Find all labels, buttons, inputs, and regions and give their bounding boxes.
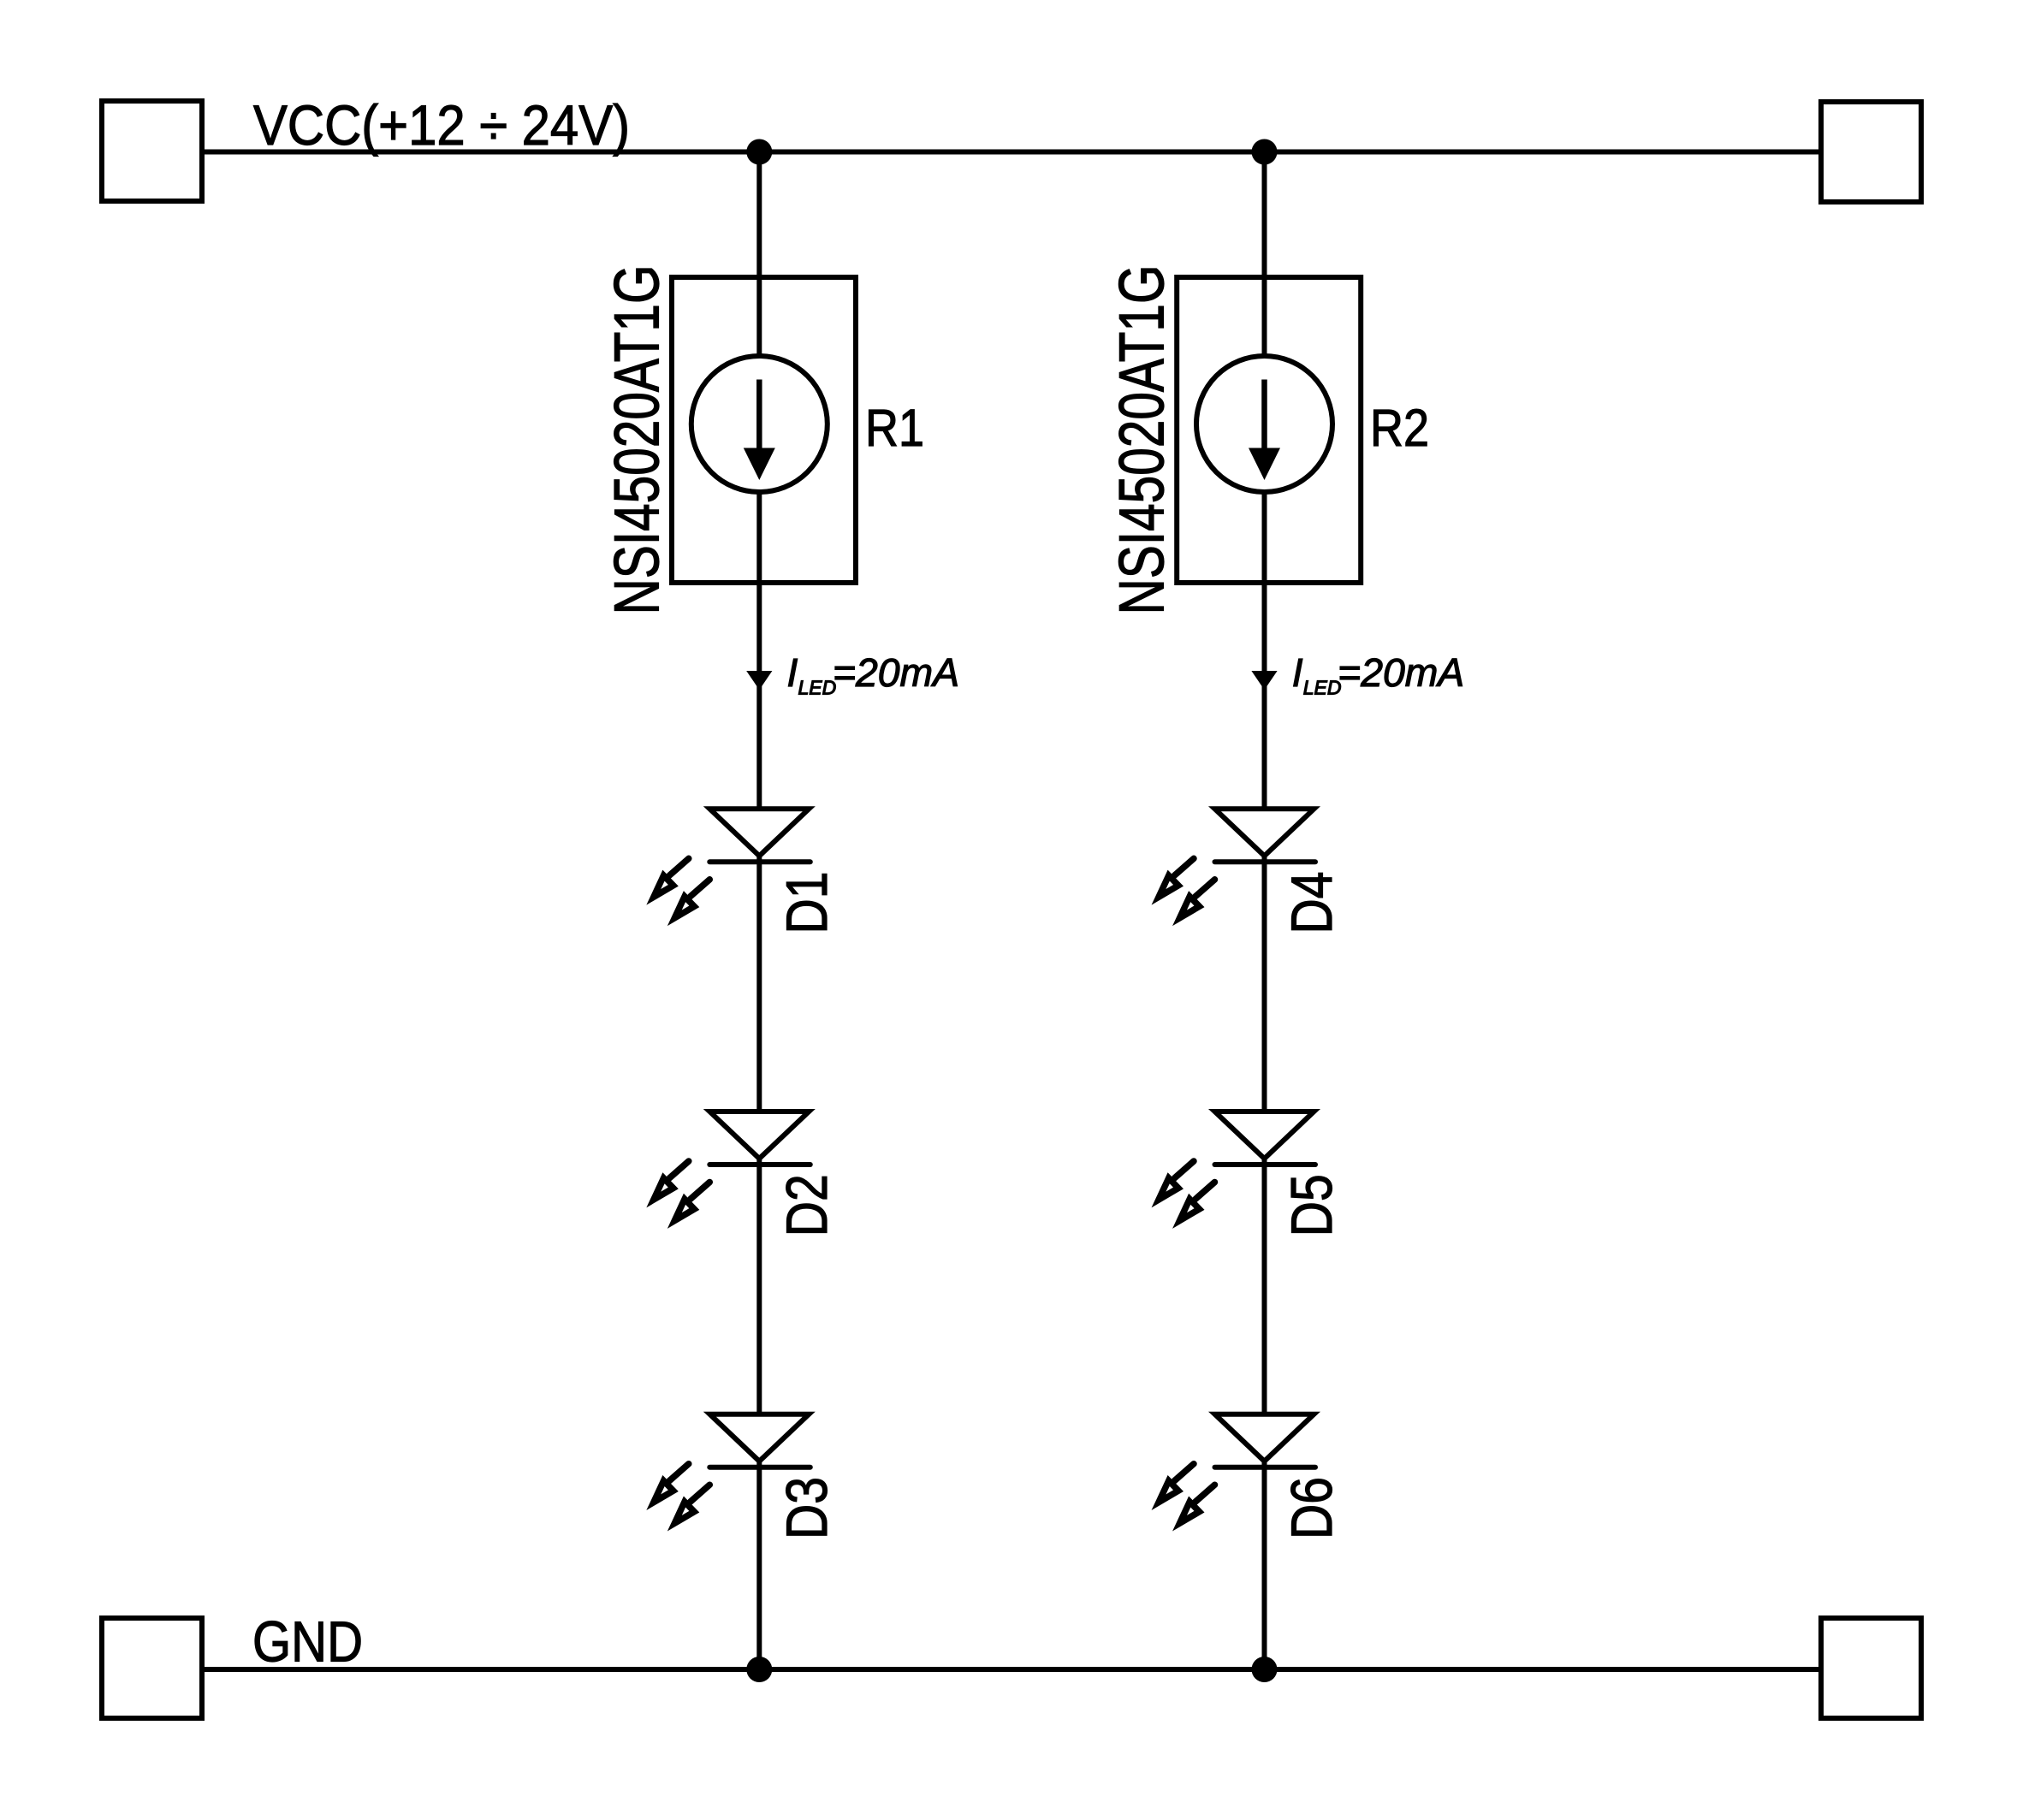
svg-text:D3: D3: [775, 1477, 839, 1539]
svg-text:R1: R1: [865, 399, 924, 457]
svg-text:NSI45020AT1G: NSI45020AT1G: [1106, 265, 1178, 615]
current direction arrowhead right branch: [1251, 671, 1277, 690]
svg-text:R2: R2: [1370, 399, 1429, 457]
connector pad top-left VCC: [102, 101, 202, 201]
svg-text:D2: D2: [775, 1174, 839, 1236]
svg-text:D5: D5: [1280, 1174, 1344, 1236]
svg-text:VCC(+12 ÷ 24V): VCC(+12 ÷ 24V): [253, 93, 630, 157]
LED D3: [654, 1414, 810, 1524]
value label I_LED=20mA right: [1292, 650, 1465, 699]
svg-text:NSI45020AT1G: NSI45020AT1G: [602, 265, 673, 615]
svg-text:GND: GND: [252, 1611, 363, 1675]
LED D5: [1159, 1112, 1315, 1221]
current regulator R2 body (rect, circle, arrow): [1177, 277, 1361, 583]
svg-text:D1: D1: [775, 872, 839, 934]
wire left branch: [756, 152, 762, 1670]
current regulator R1 body (rect, circle, arrow): [672, 277, 856, 583]
svg-text:=20mA: =20mA: [1338, 650, 1464, 695]
junction GND/right branch: [1252, 1657, 1278, 1682]
wire right branch: [1262, 152, 1267, 1670]
LED D2: [654, 1112, 810, 1221]
wire GND bottom rail: [205, 1667, 1818, 1672]
LED D6: [1159, 1414, 1315, 1524]
svg-text:I: I: [1292, 650, 1303, 695]
junction VCC/left branch: [746, 139, 772, 165]
svg-text:D6: D6: [1280, 1477, 1344, 1539]
current direction arrowhead left branch: [746, 671, 772, 690]
svg-text:LED: LED: [1303, 677, 1342, 699]
svg-text:=20mA: =20mA: [833, 650, 959, 695]
svg-text:LED: LED: [798, 677, 837, 699]
connector pad bottom-right GND: [1821, 1618, 1921, 1718]
wire VCC top rail: [205, 150, 1818, 155]
junction VCC/right branch: [1252, 139, 1278, 165]
junction GND/left branch: [746, 1657, 772, 1682]
connector pad top-right VCC: [1821, 102, 1921, 202]
value label I_LED=20mA left: [787, 650, 960, 699]
svg-text:D4: D4: [1280, 872, 1344, 934]
LED D4: [1159, 809, 1315, 918]
svg-text:I: I: [787, 650, 798, 695]
connector pad bottom-left GND: [102, 1618, 202, 1718]
LED D1: [654, 809, 810, 918]
